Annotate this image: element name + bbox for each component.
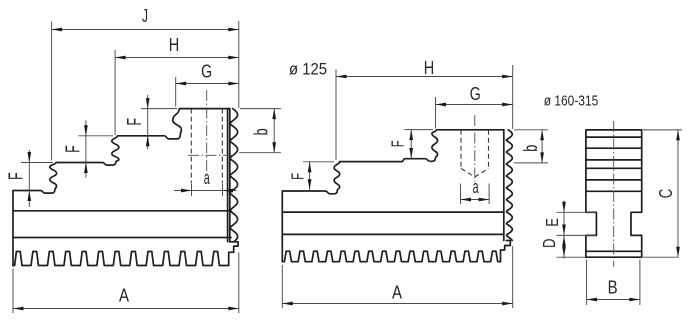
svg-text:G: G [470, 83, 481, 104]
svg-text:A: A [392, 281, 403, 302]
svg-text:A: A [119, 285, 130, 306]
svg-text:G: G [201, 61, 212, 82]
svg-text:F: F [388, 140, 408, 147]
svg-text:E: E [542, 218, 562, 227]
svg-text:a: a [204, 167, 210, 188]
svg-text:H: H [424, 57, 435, 78]
svg-text:F: F [288, 173, 308, 180]
svg-text:C: C [656, 189, 676, 199]
svg-text:F: F [6, 172, 28, 180]
svg-text:b: b [520, 145, 542, 152]
svg-text:b: b [250, 128, 272, 135]
svg-text:J: J [142, 5, 148, 26]
svg-text:B: B [608, 277, 618, 298]
svg-text:D: D [539, 238, 559, 248]
svg-text:F: F [63, 145, 85, 153]
svg-text:H: H [169, 34, 180, 55]
svg-text:ø 160-315: ø 160-315 [544, 93, 599, 109]
svg-text:ø 125: ø 125 [289, 60, 327, 79]
svg-text:a: a [473, 176, 479, 197]
svg-text:F: F [124, 118, 146, 126]
